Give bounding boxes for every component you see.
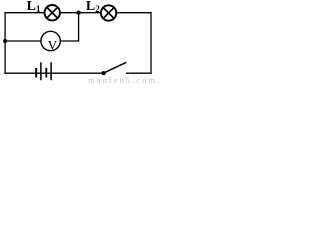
lamp L1: [45, 5, 60, 20]
wire: bottom left segment through battery to switch pivot: [4, 72, 103, 74]
node: junction dot on left wire: [3, 39, 7, 43]
wire: left side of loop: [4, 12, 6, 74]
voltmeter V: [41, 31, 60, 52]
svg-text:L1: L1: [27, 0, 41, 14]
svg-text:L2: L2: [86, 0, 100, 14]
battery (two cells): [36, 62, 51, 80]
svg-text:manfen5.com: manfen5.com: [88, 75, 157, 84]
node: junction dot on top wire: [76, 11, 80, 15]
svg-text:V: V: [48, 37, 58, 52]
lamp L2: [101, 5, 116, 20]
wire: voltmeter branch, left horizontal: [5, 40, 41, 42]
wire: voltmeter branch, right horizontal and riser to top junction: [60, 13, 79, 41]
wire: top side of loop: [4, 12, 151, 14]
wire: right side of loop: [150, 12, 152, 74]
wire: bottom right segment from switch contact to corner: [126, 72, 152, 74]
switch S (open): [102, 62, 127, 75]
